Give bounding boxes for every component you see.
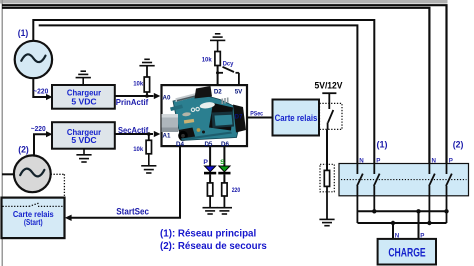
svg-text:10k: 10k bbox=[133, 146, 143, 153]
wire LED S to resistor R5 bbox=[223, 174, 225, 183]
resistor R3 10k (D2 pull) bbox=[202, 52, 221, 86]
svg-text:P: P bbox=[449, 157, 453, 164]
ground above R1 (inverted) bbox=[139, 59, 154, 65]
ground below coil bbox=[319, 219, 334, 225]
svg-text:N: N bbox=[432, 157, 437, 164]
contact switch S1 (N of source 1) bbox=[357, 164, 363, 224]
relay coil resistor bbox=[324, 170, 329, 186]
svg-text:5V/12V: 5V/12V bbox=[315, 80, 343, 90]
AC source V1 bbox=[15, 41, 52, 78]
svg-text:10k: 10k bbox=[202, 56, 212, 63]
svg-text:(1): (1) bbox=[377, 140, 388, 150]
wire source V2 left to window edge bbox=[2, 173, 15, 175]
ground below R4 bbox=[203, 208, 218, 214]
svg-text:(2): (2) bbox=[453, 139, 464, 149]
wire D6 to LED S bbox=[223, 146, 225, 166]
resistor R2 10k (SecActif pull) bbox=[133, 134, 151, 154]
resistor R5 220 bbox=[222, 183, 227, 196]
svg-text:A1: A1 bbox=[163, 132, 171, 139]
LED S (green) bbox=[218, 166, 230, 174]
svg-text:5 VDC: 5 VDC bbox=[71, 98, 96, 107]
charger box U1 Chargeur 5 VDC bbox=[52, 85, 115, 109]
wire CHARGE P bbox=[418, 211, 420, 239]
AC source V2 bbox=[14, 155, 51, 192]
relay contacts band bbox=[339, 164, 469, 196]
wire N1 bbox=[39, 25, 358, 174]
svg-text:S: S bbox=[220, 159, 225, 166]
LED P (blue) bbox=[204, 166, 216, 174]
ground above charger 1 (inverted) bbox=[76, 71, 91, 85]
resistor R4 220 bbox=[207, 183, 212, 196]
dotted linkage source V2 to start relay card bbox=[51, 174, 65, 197]
relay contact K1 dotted box bbox=[320, 103, 343, 129]
svg-text:PSec: PSec bbox=[250, 110, 263, 117]
wire PrinActif from charger 1 to Arduino A0 bbox=[115, 95, 154, 97]
relay coil dotted box bbox=[320, 164, 334, 192]
junction dot R2/SecActif bbox=[147, 132, 151, 136]
wire CHARGE N bbox=[392, 223, 394, 239]
contact switch S2 (P of source 1) bbox=[374, 164, 380, 212]
arrow StartSec into start relay card bbox=[65, 215, 72, 221]
CHARGE box bbox=[378, 239, 436, 265]
contact switch S4 (P of source 2) bbox=[446, 164, 452, 224]
ground below R2 bbox=[141, 154, 156, 173]
ground below charger 2 bbox=[76, 149, 91, 162]
wire R5 to ground bbox=[223, 196, 225, 208]
junction dot S3/bus N bbox=[427, 221, 431, 225]
window left grey edge bbox=[2, 0, 4, 266]
svg-text:(Start): (Start) bbox=[24, 218, 43, 227]
junction dot charge-N/bus N bbox=[391, 221, 395, 225]
wire D5 to LED P bbox=[209, 146, 211, 166]
svg-text:D5: D5 bbox=[204, 141, 212, 148]
svg-text:CHARGE: CHARGE bbox=[388, 246, 425, 260]
svg-text:N: N bbox=[359, 157, 364, 164]
junction dot S4/bus P bbox=[444, 209, 448, 213]
svg-text:~220: ~220 bbox=[31, 126, 46, 133]
window top grey strip bbox=[0, 0, 448, 3]
resistor R1 10k (PrinActif pull) bbox=[133, 66, 149, 96]
bus N horizontal bbox=[358, 222, 447, 224]
dotted contact line inside start relay card bbox=[3, 203, 64, 206]
arrow into charger 2 bbox=[46, 131, 53, 137]
svg-text:(2): Réseau de secours: (2): Réseau de secours bbox=[160, 241, 267, 252]
wire R4 to ground bbox=[209, 196, 211, 208]
Arduino box U3 bbox=[162, 85, 248, 146]
svg-text:~220: ~220 bbox=[33, 89, 48, 96]
svg-text:(2): (2) bbox=[18, 144, 29, 154]
bus P horizontal bbox=[358, 210, 447, 212]
wire N2 top horizontal bbox=[2, 8, 429, 174]
svg-text:Carte relais: Carte relais bbox=[275, 113, 318, 124]
svg-text:PrinActif: PrinActif bbox=[116, 97, 149, 107]
svg-text:10k: 10k bbox=[133, 81, 143, 88]
wire P2 top horizontal bbox=[2, 5, 447, 174]
ground below R5 bbox=[217, 208, 232, 214]
svg-text:Chargeur: Chargeur bbox=[67, 89, 102, 98]
svg-text:(1): Réseau principal: (1): Réseau principal bbox=[160, 228, 256, 239]
charger box U2 Chargeur 5 VDC bbox=[52, 122, 115, 149]
svg-text:P: P bbox=[203, 159, 208, 166]
svg-text:220: 220 bbox=[232, 187, 241, 194]
wire coil to ground bbox=[326, 186, 328, 219]
junction dot charge-P/bus P bbox=[416, 209, 420, 213]
svg-text:5V: 5V bbox=[235, 88, 243, 95]
start relay card box (Carte relais (Start)) bbox=[2, 198, 65, 239]
wire P1 from source 1 top bbox=[33, 20, 374, 174]
svg-text:5 VDC: 5 VDC bbox=[71, 136, 96, 145]
contact switch S3 (N of source 2) bbox=[429, 164, 435, 224]
wire source V2 top to charger 2 bbox=[34, 134, 46, 156]
junction dot Dcy branch bbox=[216, 71, 219, 74]
arrow into charger 1 bbox=[46, 94, 53, 100]
wire LED P to resistor R4 bbox=[209, 174, 211, 183]
5V/12V supply T bar bbox=[322, 93, 336, 109]
svg-text:StartSec: StartSec bbox=[116, 207, 149, 217]
switch Dcy between D2 node and 5V bbox=[218, 67, 239, 85]
wire source V1 bottom to charger 1 with arrow bbox=[33, 78, 47, 98]
wire D4 to StartSec bbox=[71, 146, 180, 218]
arrow into A1 bbox=[154, 131, 161, 137]
junction dot S2/bus P bbox=[372, 209, 376, 213]
mechanical linkage dashed line in band bbox=[341, 179, 467, 181]
Arduino board graphic bbox=[162, 86, 247, 141]
relay card box (Carte relais) bbox=[273, 100, 320, 136]
svg-text:SecActif: SecActif bbox=[118, 125, 148, 135]
wire from K1 contact down to coil bbox=[326, 129, 328, 170]
arrow into A0 bbox=[154, 93, 161, 99]
svg-text:D2: D2 bbox=[214, 88, 222, 95]
svg-text:D7: D7 bbox=[235, 113, 243, 120]
svg-text:(1): (1) bbox=[18, 28, 29, 38]
svg-text:A0: A0 bbox=[163, 94, 171, 101]
ground above R3 (inverted) bbox=[210, 34, 225, 52]
svg-text:Dcy: Dcy bbox=[223, 60, 234, 67]
svg-text:P: P bbox=[376, 157, 380, 164]
wire PSec from Arduino D7 to relay card bbox=[247, 117, 273, 119]
junction dot R1/PrinActif bbox=[145, 94, 149, 98]
wire SecActif from charger 2 to Arduino A1 bbox=[115, 133, 153, 135]
relay contact K1 switch bbox=[328, 110, 334, 129]
